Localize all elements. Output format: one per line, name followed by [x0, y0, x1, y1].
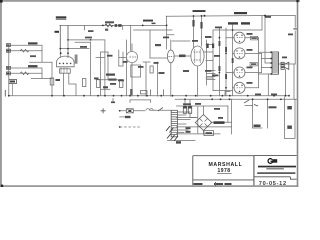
PSU: bridge right wire	[211, 121, 232, 123]
labels lower mid	[138, 66, 144, 68]
screen supply drop	[261, 16, 263, 30]
grid resistor bodies	[219, 41, 221, 46]
PI tail vertical	[205, 40, 207, 85]
PSU: cap ground stubs	[185, 100, 190, 107]
power tube V6	[234, 67, 245, 78]
input channel2 top wire	[9, 68, 42, 73]
mid vertical 3d	[118, 50, 120, 66]
corner mark top-left	[0, 0, 3, 3]
svg-text:70-05-12: 70-05-12	[259, 181, 287, 187]
output transformer OT1	[270, 51, 278, 75]
V2a cathode label	[103, 86, 108, 88]
mid vertical 2	[104, 40, 106, 96]
heater bus	[96, 79, 119, 81]
label above screen rail	[215, 27, 222, 29]
mid vertical 3b	[107, 52, 109, 80]
label mid	[110, 83, 116, 85]
top B+ rail	[166, 14, 295, 17]
V1 cathode drop	[51, 62, 53, 95]
plate wires to OT	[245, 38, 262, 88]
heater lead blob	[176, 141, 181, 143]
selector label 1	[287, 106, 292, 109]
V2b triode	[167, 50, 174, 63]
bass wire	[60, 48, 89, 50]
title block cell divider	[214, 182, 217, 186]
grid resistor R4	[28, 65, 38, 67]
title block small cell text left	[194, 183, 203, 185]
input ground drop	[8, 45, 10, 95]
junction dot B+	[204, 15, 206, 17]
power tubes labels	[228, 22, 238, 24]
PSU: bridge verticals	[190, 106, 204, 134]
bias components above rail	[130, 89, 132, 95]
heater stub	[101, 88, 110, 90]
resistor R1 zigzag	[105, 24, 113, 27]
presence pot vertical 1	[252, 99, 254, 128]
coupling cap C2	[115, 24, 118, 27]
sprinkled value labels	[94, 16, 293, 119]
label middle top	[143, 20, 153, 22]
label cluster near V2b	[179, 55, 186, 58]
power tube V5	[234, 48, 245, 59]
filter cap C21	[188, 106, 191, 113]
V1 base	[60, 69, 71, 73]
power section horizontals	[206, 45, 213, 79]
earth symbol mark	[101, 109, 105, 113]
logo text line 1	[258, 166, 296, 168]
border frame bottom edge	[0, 185, 298, 187]
plate bus verticals	[259, 38, 262, 88]
border frame right edge	[297, 0, 299, 187]
mid vertical 3	[126, 40, 128, 96]
cathode resistor RK2	[83, 79, 86, 87]
input jack J2	[7, 66, 11, 75]
ground rail	[9, 95, 289, 97]
controls rail	[60, 24, 167, 26]
component cluster mid 1	[106, 74, 115, 76]
title block small cell text middle	[214, 183, 223, 185]
pilot lamp	[126, 109, 133, 113]
PI tube stubs	[198, 52, 214, 96]
resistor R1 label	[105, 21, 114, 23]
grid resistor R5	[20, 72, 29, 75]
logo text line 3	[257, 172, 295, 174]
tail resistor rungs	[207, 71, 215, 80]
ground junction dots	[8, 95, 10, 97]
logo G mark	[268, 159, 272, 164]
right feedback drop	[294, 15, 296, 64]
label near V2b top	[163, 37, 169, 39]
grid resistor R2	[28, 42, 38, 44]
filter cap C20	[183, 106, 186, 113]
mid wire label	[85, 37, 92, 39]
mid link wires	[101, 52, 123, 66]
grid leak pot bar	[75, 55, 78, 64]
chassis rail	[175, 98, 297, 100]
B+ rail drop left	[166, 16, 168, 49]
PSU: HT wire top	[177, 105, 229, 107]
mains wire	[120, 109, 171, 112]
standby switch	[244, 100, 249, 103]
label right lower	[255, 94, 261, 96]
cluster riser	[122, 25, 124, 29]
OT centre tap drop	[265, 16, 272, 63]
label VOLUME (top left)	[56, 16, 67, 18]
channel mix label	[30, 55, 36, 57]
boxed label OP2	[251, 36, 258, 40]
cathode resistor RK3	[97, 80, 100, 88]
cap drop left	[59, 25, 61, 48]
label mid2	[123, 61, 128, 63]
PSU: heater wire 2	[168, 140, 196, 142]
power tube V4	[234, 32, 245, 43]
V2a stubs	[131, 44, 133, 96]
V1 plate wires	[60, 25, 68, 57]
input channel2 lower wire	[9, 72, 42, 74]
power tube V7	[234, 82, 245, 93]
junction dots V1 top	[60, 52, 62, 54]
secondary tap wire	[279, 63, 296, 65]
PSU: bridge left wire	[177, 117, 197, 119]
heater loop bracket	[130, 100, 151, 103]
label PI bottom	[205, 70, 212, 72]
PI input wire	[175, 55, 191, 57]
title block outer box	[193, 156, 254, 186]
mid vertical 4	[134, 30, 172, 58]
mains fuse	[146, 109, 153, 111]
mid vertical 1	[90, 42, 92, 96]
label on rail right	[234, 12, 247, 14]
PSU: heater wire 1	[177, 133, 221, 135]
label mid3	[118, 80, 124, 82]
screen rail	[213, 30, 262, 91]
mid wire	[68, 39, 105, 41]
wire label lead	[67, 25, 69, 40]
corner mark top-right	[296, 0, 298, 2]
feedback resistor	[293, 28, 296, 29]
V1 cathode resistor	[50, 78, 54, 85]
power tube link wires	[226, 38, 234, 88]
svg-text:MARSHALL: MARSHALL	[208, 162, 242, 168]
V2a triode	[126, 51, 137, 62]
input channel1 lower wire	[9, 50, 42, 52]
label PI top	[192, 40, 198, 42]
V2a base shield	[131, 65, 141, 77]
grid column 2	[225, 28, 227, 96]
fuse holder box	[204, 131, 214, 136]
label feedback	[288, 34, 293, 36]
coupling wire	[96, 57, 127, 59]
mains lower wire	[120, 116, 125, 118]
inter-stage wire	[172, 40, 190, 42]
fold mark left middle	[5, 90, 6, 97]
presence wire left	[245, 105, 253, 107]
mid top link	[75, 41, 91, 43]
label near speaker	[282, 57, 287, 59]
grid wire channel2	[31, 73, 52, 78]
label right of PI	[214, 55, 220, 57]
tube4 grid jog	[225, 92, 230, 96]
tap labels	[186, 127, 191, 129]
input channel1 top wire	[9, 45, 42, 51]
bridge rectifier BR1	[195, 115, 211, 131]
grid column 3	[232, 25, 234, 96]
label near V2a	[107, 55, 113, 57]
mid vertical 4b	[143, 62, 150, 96]
corner mark bottom-left	[1, 185, 3, 187]
label above B+ rail	[193, 10, 206, 12]
border frame top edge	[0, 0, 300, 2]
OT return wire	[267, 74, 269, 96]
plate resistor bodies	[192, 20, 194, 27]
power transformer PT	[171, 110, 177, 137]
label top rail right	[265, 16, 271, 18]
PI coupling caps	[207, 44, 209, 49]
presence bottom link	[253, 127, 262, 129]
cap to ground below rail	[112, 98, 114, 102]
bias feed line	[213, 90, 233, 92]
mains switch	[158, 108, 163, 112]
presence bottom component	[254, 125, 261, 128]
V2a plate riser	[130, 25, 132, 50]
input jack J1	[7, 44, 11, 53]
wire below V1	[64, 73, 77, 95]
cathode resistor RK4	[120, 80, 123, 88]
speaker SPK	[281, 62, 289, 69]
mains connector mark	[125, 116, 131, 118]
grid resistor R3	[20, 49, 29, 52]
PI plate risers	[194, 16, 202, 48]
presence label	[269, 106, 277, 108]
logo dark block	[272, 159, 277, 163]
labels near power tubes	[247, 33, 253, 35]
rail end drop	[84, 25, 86, 30]
mid vertical 3e	[122, 52, 124, 66]
channel join vertical	[30, 51, 52, 63]
primary connection stubs	[259, 52, 273, 74]
border frame left edge	[0, 0, 2, 187]
logo text line 2	[266, 168, 284, 169]
speaker return wire	[285, 70, 287, 96]
grid column 1	[218, 28, 220, 96]
V3 phase inverter	[191, 46, 204, 66]
V2b stubs	[167, 35, 174, 96]
mid vertical 3c	[100, 52, 102, 96]
switch linkage dashed	[120, 126, 142, 128]
PSU: transformer taps	[177, 112, 190, 133]
boxed label OP1	[250, 62, 257, 66]
power rail dots	[232, 29, 234, 31]
B+ rail junction dots	[264, 15, 266, 17]
PSU: right column vertical	[228, 99, 232, 134]
heater twisted wires	[166, 126, 178, 141]
logo box	[254, 156, 297, 186]
bass label	[80, 46, 87, 48]
right edge vertical	[293, 64, 295, 99]
cap labels	[183, 103, 191, 105]
V1 tube envelope	[57, 56, 75, 73]
impedance selector loop	[285, 97, 296, 139]
bridge label	[214, 121, 225, 124]
presence pot vertical 2	[267, 99, 269, 128]
V2b cathode vertical	[157, 62, 159, 96]
PSU: bias wire	[177, 126, 232, 128]
capacitor C1 mark	[55, 31, 60, 33]
labels PSU	[195, 103, 201, 105]
selector label 2	[287, 126, 292, 129]
cathode network R6	[9, 80, 17, 84]
wire to V2b	[150, 57, 167, 59]
presence pot arrow	[254, 105, 258, 107]
